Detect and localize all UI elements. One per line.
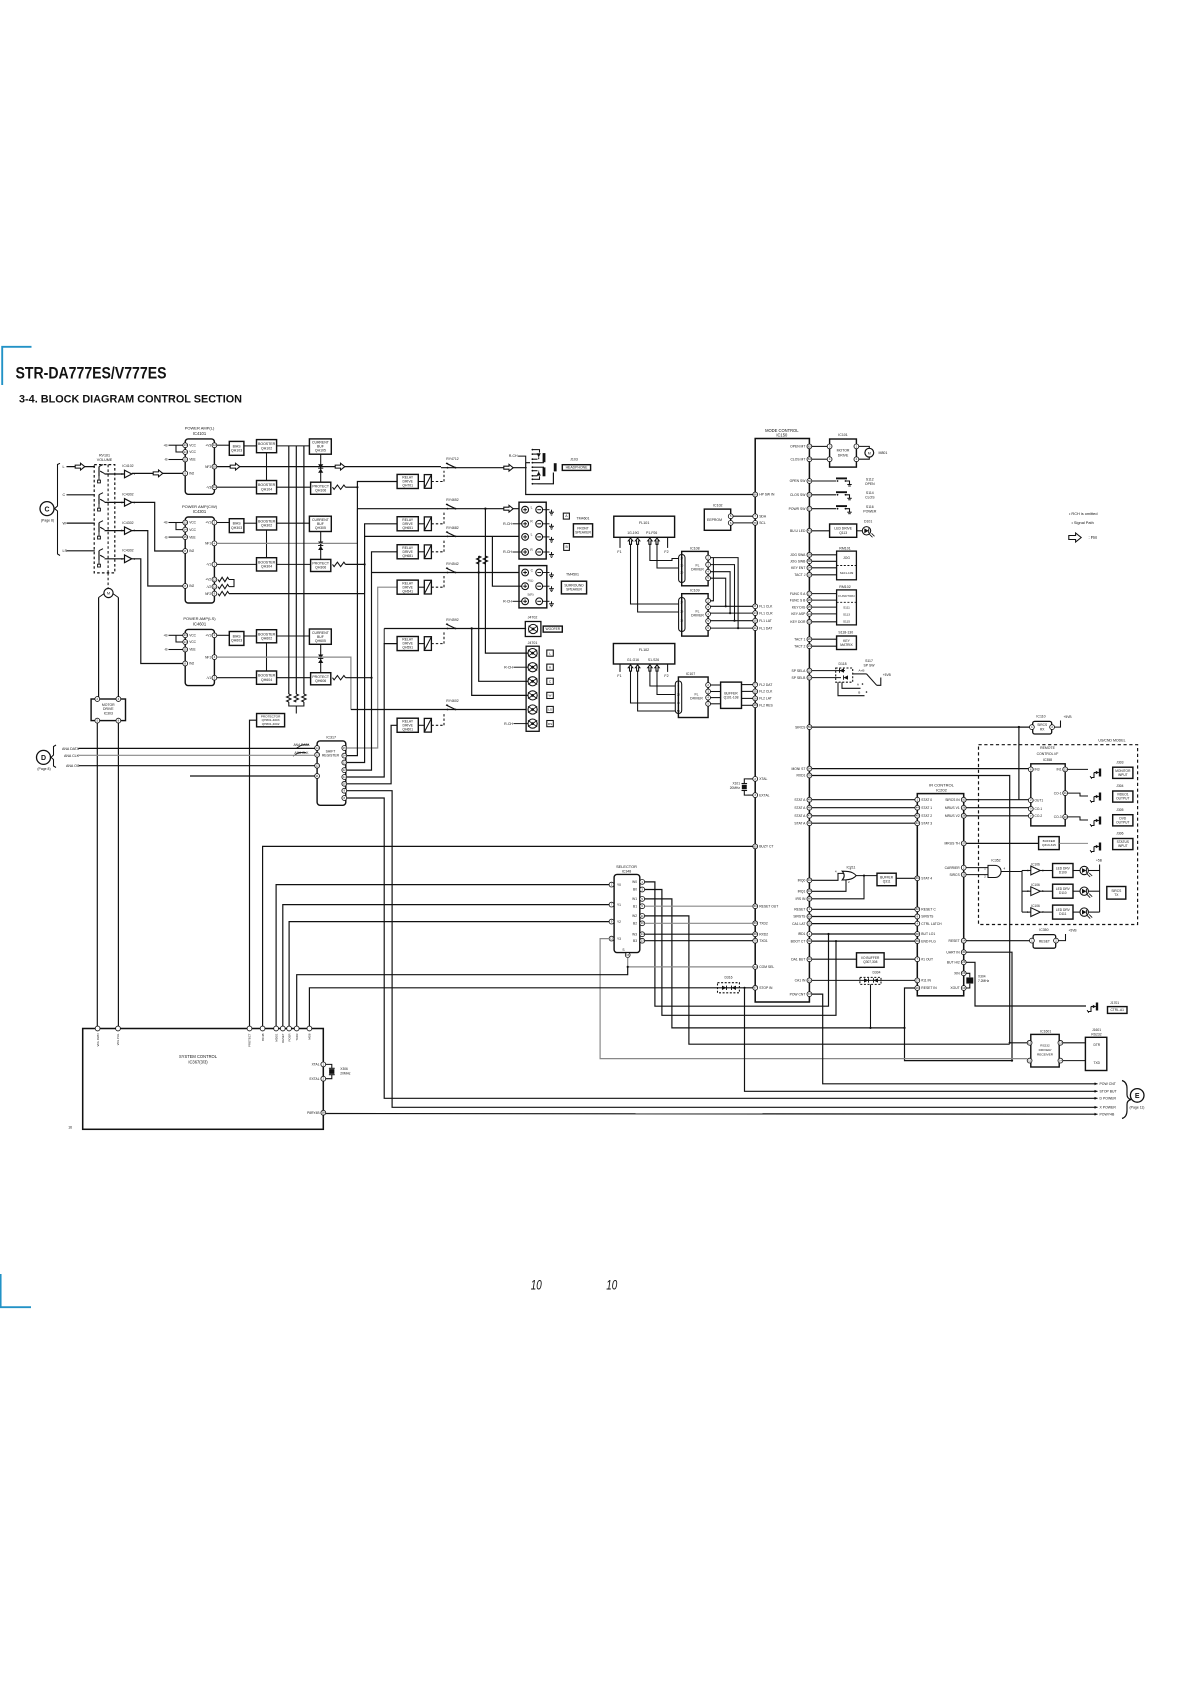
svg-text:SP SW: SP SW <box>863 663 875 667</box>
svg-text:62: 62 <box>808 444 812 448</box>
IC150 pin 77 FL2 DAT <box>753 682 758 687</box>
svg-text:13: 13 <box>184 520 188 524</box>
svg-text:TM4601: TM4601 <box>576 517 589 521</box>
svg-text:CO-1: CO-1 <box>1035 807 1043 811</box>
FL102 drive arrow <box>628 665 632 671</box>
svg-text:26: 26 <box>808 598 812 602</box>
svg-text:27: 27 <box>808 592 812 596</box>
svg-text:CTRL-A1: CTRL-A1 <box>1110 1008 1124 1012</box>
dashed link RY4652 <box>431 523 444 525</box>
headphone jack bottom loop <box>538 473 554 484</box>
IC150 pin 25 KEY DIG <box>807 605 812 610</box>
I/O buffer Q307,308 <box>857 953 885 968</box>
wire to RM102 <box>812 621 837 623</box>
IC317 pin 13 <box>315 752 320 757</box>
IC150 pin 48 STAT A <box>807 805 812 810</box>
wire IC317 output 3 to relay row <box>347 524 397 763</box>
svg-text:W: W <box>549 694 552 698</box>
IC202 pin 7 #1 OUT <box>915 957 920 962</box>
svg-text:Q311: Q311 <box>883 880 891 884</box>
svg-text:DRIVE: DRIVE <box>838 453 849 457</box>
IC150 pin 27 FUNC S A <box>807 591 812 596</box>
svg-text:REMOTE: REMOTE <box>1040 746 1055 750</box>
svg-text:23: 23 <box>962 960 966 964</box>
svg-text:D111: D111 <box>1059 912 1066 916</box>
IC202 pin 28 MRUS V2 <box>961 813 966 818</box>
control wires RESET C..END FLG <box>812 908 915 910</box>
svg-text:S111: S111 <box>843 606 850 610</box>
wire protector to system control PROTECT <box>250 720 257 1028</box>
potentiometer element 2 of RV101 <box>98 495 100 505</box>
boxed label A <box>563 513 569 519</box>
svg-text:12: 12 <box>316 764 320 768</box>
wire IC317 output 7 to bottom bus <box>347 791 1096 1108</box>
svg-text:FUNCTION: FUNCTION <box>838 594 854 598</box>
svg-text:FUNC S A: FUNC S A <box>790 592 806 596</box>
svg-text:16: 16 <box>680 619 683 623</box>
wire S to TXD3 <box>297 967 628 1029</box>
wire W3 to RXD2 <box>645 933 753 935</box>
svg-text:QH302: QH302 <box>261 524 272 528</box>
IC348 pin 9 Y2 <box>609 919 614 924</box>
svg-text:46: 46 <box>916 876 920 880</box>
svg-text:S116: S116 <box>866 505 874 509</box>
svg-text:J304: J304 <box>1116 784 1123 788</box>
IR control IC202 body <box>917 794 963 996</box>
IC202 pin 23 BUT HI2 <box>961 960 966 965</box>
dashed link RY4712 <box>431 481 444 483</box>
IC367 top pin VOL DWN <box>95 1026 100 1031</box>
wire bias to booster QH102 <box>244 445 257 447</box>
svg-text:BC4B: BC4B <box>261 1033 265 1040</box>
wire to RM101 <box>812 574 837 576</box>
IC348 pin 5 W1 <box>640 897 645 902</box>
relay drive QH681 <box>397 545 418 559</box>
wire W1 routing <box>645 899 905 1028</box>
svg-text:J306: J306 <box>1116 832 1123 836</box>
svg-text:FL2 RES: FL2 RES <box>759 704 773 708</box>
svg-text:QH305: QH305 <box>315 526 326 530</box>
svg-text:48: 48 <box>808 806 812 810</box>
IC348 pin 10 B2 <box>640 921 645 926</box>
svg-text:W2: W2 <box>632 914 637 918</box>
svg-text:FL2 CLK: FL2 CLK <box>759 690 773 694</box>
wire RESET IN routing <box>905 988 1013 1061</box>
svg-text:R-CH: R-CH <box>504 665 513 669</box>
svg-text:M: M <box>107 591 110 596</box>
svg-text:QH651: QH651 <box>402 526 413 530</box>
LED driver D109 <box>1053 864 1073 878</box>
svg-text:12: 12 <box>343 768 347 772</box>
relay coil QH541 <box>424 580 431 594</box>
wire relay drive QH651 input <box>418 523 424 525</box>
svg-text:QH681: QH681 <box>402 554 413 558</box>
vertical supply bus 3 <box>303 446 305 694</box>
jack J4701 W <box>528 691 537 700</box>
svg-text:IC202: IC202 <box>936 787 947 792</box>
svg-text:QH801,4002: QH801,4002 <box>262 722 280 726</box>
svg-text:R-CH: R-CH <box>503 600 512 604</box>
IC108 output pin 1 <box>706 555 711 560</box>
svg-text:25: 25 <box>808 605 812 609</box>
svg-text:10: 10 <box>213 465 217 469</box>
bias QH303 <box>229 519 244 533</box>
svg-text:QH306: QH306 <box>315 566 326 570</box>
svg-text:IC367(3/3): IC367(3/3) <box>188 1060 208 1065</box>
svg-text:IN2: IN2 <box>189 662 194 666</box>
svg-text:80: 80 <box>808 897 812 901</box>
protect QH106 <box>311 482 331 494</box>
speaker line front L through RY4712 <box>441 467 527 469</box>
svg-text:F2: F2 <box>664 550 668 554</box>
svg-text:J4702: J4702 <box>528 616 538 620</box>
svg-text:7.2MHz: 7.2MHz <box>978 979 990 983</box>
booster QH602 <box>257 630 277 643</box>
IC348 pin 6 B1 <box>640 904 645 909</box>
svg-text:PROTECT: PROTECT <box>248 1033 252 1047</box>
svg-text:ANA CLK: ANA CLK <box>64 754 80 758</box>
svg-text:DRIVER: DRIVER <box>691 614 704 618</box>
LED driver D110 <box>1053 884 1073 898</box>
IC202 pin 42 RESET C <box>915 907 920 912</box>
svg-text:POER: POER <box>287 1034 291 1042</box>
potentiometer element 1 of RV101 <box>98 467 100 477</box>
svg-text:R(L): R(L) <box>528 578 534 582</box>
svg-text:55: 55 <box>808 493 812 497</box>
input brace <box>55 463 61 555</box>
IC150 pin 7 SDA <box>753 514 758 519</box>
IC202 pin 14 RESET <box>961 938 966 943</box>
IC317 output pin 7 <box>342 788 347 793</box>
wire boosters vertical link IC4601 <box>266 643 268 671</box>
IC150 pin 10 FL1 LAT <box>753 618 758 623</box>
IC150 pin 8 FL1 CLK <box>753 604 758 609</box>
svg-text:78: 78 <box>808 773 812 777</box>
wire MONI ST to IN3 <box>812 768 1029 770</box>
potentiometer element 4 of RV101 <box>98 551 100 561</box>
svg-text:QH603: QH603 <box>231 639 242 643</box>
svg-text:KEY ASP: KEY ASP <box>791 612 806 616</box>
wire ANA OC <box>79 765 315 767</box>
wire gate to buffer <box>856 875 877 877</box>
svg-text:J303: J303 <box>1116 760 1123 764</box>
svg-text:VOL DWN: VOL DWN <box>96 1034 100 1047</box>
booster QH604 <box>257 671 277 684</box>
wire P8RY4B bottom bus <box>326 1113 1096 1116</box>
svg-text:COM SEL: COM SEL <box>759 965 774 969</box>
FL display FL101 <box>614 516 675 537</box>
HEADPHONE box <box>562 465 590 471</box>
booster QH304 <box>257 558 277 571</box>
terminal surround C <box>522 569 529 576</box>
svg-text:39: 39 <box>916 939 920 943</box>
wire FL101 P arrows to IC108 <box>650 544 679 561</box>
svg-text:11: 11 <box>1028 1059 1031 1063</box>
svg-text:STAT 1: STAT 1 <box>921 806 932 810</box>
svg-text:IC4302: IC4302 <box>122 493 133 497</box>
current limiter diodes IC4601 <box>320 644 322 672</box>
IC4101 pin 12 +V3 <box>212 443 217 448</box>
wire buffer to #1 OUT <box>884 958 915 960</box>
IC150 pin 15 FL2 CLK <box>753 689 758 694</box>
IC367 top pin RESET <box>280 1026 285 1031</box>
svg-text:13: 13 <box>754 611 758 615</box>
IC202 pin 43 STAT 3 <box>915 821 920 826</box>
relay switch RY4712 <box>447 467 449 469</box>
IC202 pin 15 XIN <box>961 971 966 976</box>
svg-text:IC352: IC352 <box>991 859 1000 863</box>
svg-text:IC4301: IC4301 <box>193 509 207 514</box>
wire SIRCS to gate <box>966 874 988 876</box>
IC202 pin 4 CTRL LATCH <box>915 921 920 926</box>
protect QH606 output resistor <box>333 676 346 680</box>
wire booster QH102 to current buf <box>277 445 310 447</box>
tact switch S112 OPEN <box>812 480 836 482</box>
IC150 pin 1 RESET <box>807 907 812 912</box>
svg-text:C: C <box>44 506 49 513</box>
svg-text:DRIVER: DRIVER <box>690 697 703 701</box>
IC348 pin 1 W0 <box>640 880 645 885</box>
svg-text:(Page 8): (Page 8) <box>37 767 50 771</box>
wire boosters vertical link IC4301 <box>266 530 268 558</box>
svg-text:TACT J: TACT J <box>794 573 805 577</box>
svg-text:S118-130: S118-130 <box>838 630 853 634</box>
svg-text:BUZY CT: BUZY CT <box>759 845 773 849</box>
svg-text:SIRCS: SIRCS <box>949 873 960 877</box>
svg-text:18: 18 <box>754 703 758 707</box>
relay coil QH591 <box>424 637 431 651</box>
svg-text:P8RY4B: P8RY4B <box>307 1111 319 1115</box>
wire surround line to J4701 C <box>479 573 528 682</box>
resistor on NF2 <box>218 591 229 595</box>
wire B2 to TXD2 <box>645 922 753 924</box>
IC150 pin 70 TXD1 <box>753 938 758 943</box>
IC150 pin 13 FL1 CLR <box>753 611 758 616</box>
IC150 pin 67 STOP IN <box>753 985 758 990</box>
IC150 pin 39 JOG SWA <box>807 552 812 557</box>
svg-text:10: 10 <box>641 921 645 925</box>
IC4601 pin 14 VCC <box>183 640 188 645</box>
svg-text:11: 11 <box>641 914 644 918</box>
wire STOP IN line <box>309 988 752 1029</box>
jack to J304 <box>1068 793 1088 796</box>
FL101 drive arrow <box>648 538 652 544</box>
svg-text:14: 14 <box>316 746 320 750</box>
wire S select / COM SEL (gray) <box>628 957 753 967</box>
IC4301 pin 15 VEE <box>183 535 188 540</box>
wire protect QH106 to relay bus <box>346 486 358 488</box>
svg-text:76: 76 <box>754 521 758 525</box>
svg-text:28: 28 <box>962 814 966 818</box>
svg-text:A+B: A+B <box>859 669 865 673</box>
svg-text:VOL PUL: VOL PUL <box>116 1033 120 1045</box>
potentiometer element 3 of RV101 <box>98 523 100 533</box>
svg-text:58: 58 <box>322 1111 326 1115</box>
svg-text:10: 10 <box>962 798 966 802</box>
svg-text:IN2: IN2 <box>189 584 194 588</box>
svg-text:M: M <box>868 451 871 455</box>
boxed label B <box>564 544 570 551</box>
svg-text:63: 63 <box>808 914 812 918</box>
svg-text:FL2 DAT: FL2 DAT <box>759 683 772 687</box>
wire IC317 output 2 to relay row <box>347 482 397 756</box>
svg-text:FL102: FL102 <box>639 648 649 652</box>
svg-text:22: 22 <box>808 669 812 673</box>
volume motor M <box>104 588 113 597</box>
svg-text:VCC: VCC <box>189 443 196 447</box>
relay coil QH681 <box>424 545 431 559</box>
svg-text:IC317: IC317 <box>326 735 336 739</box>
svg-text:RESET: RESET <box>281 1033 285 1043</box>
IC348 pin 3 B0 <box>640 887 645 892</box>
svg-text:16: 16 <box>68 1125 72 1129</box>
FL101 drive arrow <box>628 538 632 544</box>
svg-text:IC348: IC348 <box>622 870 631 874</box>
IC202 pin 39 END FLG <box>915 939 920 944</box>
wire IC1601 to J1601 TXD <box>1063 1060 1086 1062</box>
svg-text:13: 13 <box>1064 767 1068 771</box>
svg-text:F1: F1 <box>617 674 621 678</box>
svg-text:Q313-315: Q313-315 <box>1042 843 1056 847</box>
svg-text:RXD1: RXD1 <box>796 774 805 778</box>
svg-text:14: 14 <box>184 450 188 454</box>
svg-text:MATRIX: MATRIX <box>840 643 853 647</box>
brace to connector E <box>1122 1081 1131 1119</box>
svg-text:11: 11 <box>1064 791 1067 795</box>
resistor on -V2 <box>218 584 229 588</box>
wire IC317 pin1 to relay QH541 (gray) <box>347 587 397 748</box>
wire FL101 G arrows to IC109 <box>631 544 679 604</box>
surround speaker terminal TM4501 <box>519 566 547 608</box>
svg-text:SDA: SDA <box>759 514 767 518</box>
signal arrow on L input <box>75 463 85 470</box>
svg-text:Y3: Y3 <box>617 937 621 941</box>
svg-text:12: 12 <box>1028 1041 1032 1045</box>
IC108 output pin 2 <box>706 562 711 567</box>
relay drive QH541 <box>397 580 418 594</box>
svg-text:REGISTER: REGISTER <box>322 754 340 758</box>
FL101 drive arrow <box>635 538 639 544</box>
front speaker terminal TM4601 <box>519 502 546 559</box>
svg-text:POWY4B: POWY4B <box>1100 1113 1115 1117</box>
wire Y1 to system control <box>283 905 609 1029</box>
IC4601 pin 13 VCC <box>183 633 188 638</box>
wire +V2/-V2 join <box>229 580 234 587</box>
CTRL-A1 box <box>1108 1007 1128 1014</box>
IC348 pin 7 Y1 <box>609 902 614 907</box>
IC4301 pin 14 VCC <box>183 527 188 532</box>
wire IRQ1 to gate <box>812 880 846 892</box>
svg-text:IC109: IC109 <box>690 589 699 593</box>
signal arrow buffer1 out <box>153 470 163 477</box>
svg-text:R-CH: R-CH <box>503 550 512 554</box>
jack J4701 L <box>528 649 537 658</box>
svg-text:RESET: RESET <box>1039 940 1050 944</box>
IC150 pin 10 IRQ0 <box>807 878 812 883</box>
FL1 bus wires IC109 to IC150 <box>711 605 753 607</box>
bus resistor 3 <box>302 694 306 702</box>
relay switch RY4542 <box>447 572 449 574</box>
svg-text:23: 23 <box>677 693 680 697</box>
svg-text:14: 14 <box>343 754 347 758</box>
legend FM arrow <box>1069 533 1081 542</box>
wire DA1 BUT to buffer <box>812 958 857 960</box>
IC150 pin 16 IRQ1 <box>807 889 812 894</box>
svg-text:J4701: J4701 <box>528 641 538 645</box>
svg-text:19: 19 <box>808 676 812 680</box>
IC317 pin 11 <box>315 774 320 779</box>
svg-text:13: 13 <box>184 443 188 447</box>
svg-text:MOTOR: MOTOR <box>837 449 850 453</box>
wire motor drive to system control VOL PUL <box>117 723 119 1029</box>
IC348 pin 11 W2 <box>640 914 645 919</box>
svg-text:SIRSTS: SIRSTS <box>921 915 934 919</box>
MONITOR INPUT box <box>1113 767 1133 778</box>
wire IC317 output 8 to bottom bus <box>347 798 1096 1098</box>
signal arrow front A <box>504 505 513 512</box>
FL102 drive arrow <box>635 665 639 671</box>
wire IC4601 +V to bias <box>217 634 230 636</box>
IC4601 pin 4 NF1 <box>212 655 217 660</box>
svg-text:27: 27 <box>916 978 920 982</box>
IC4601 pin 2 +V1 <box>212 633 217 638</box>
svg-text:S112: S112 <box>866 477 874 481</box>
svg-text:17: 17 <box>680 557 683 561</box>
svg-text:JOG: JOG <box>843 556 850 560</box>
svg-text:CLOS: CLOS <box>865 496 875 500</box>
IC4301 pin 8 IN2 <box>183 584 188 589</box>
IC109 output pin 4 <box>706 619 711 624</box>
svg-text:+5VB: +5VB <box>1064 715 1072 719</box>
svg-text:61: 61 <box>808 978 812 982</box>
wire bias to booster QH602 <box>244 635 257 637</box>
svg-text:J1701: J1701 <box>1110 1001 1119 1005</box>
jack to J305 <box>1068 817 1088 820</box>
svg-text:CA1 LAT: CA1 LAT <box>792 922 805 926</box>
svg-text:(Page 8): (Page 8) <box>41 519 54 523</box>
svg-text:MRUS V2: MRUS V2 <box>945 814 960 818</box>
current buf QH305 <box>309 516 331 531</box>
jack J4701 LS <box>528 705 537 714</box>
wire TACT 1 <box>812 638 837 640</box>
svg-text:16: 16 <box>962 986 966 990</box>
svg-text:IN2: IN2 <box>189 549 194 553</box>
wire ANA DATA <box>79 747 315 749</box>
svg-text:-B: -B <box>164 648 167 652</box>
svg-text:RV101: RV101 <box>99 453 110 457</box>
wires IC107 to buffer <box>711 684 721 686</box>
svg-text:POWR SW: POWR SW <box>789 507 807 511</box>
SURROUND SPEAKER box <box>561 581 586 594</box>
IC367 top pin MDO1 <box>274 1026 279 1031</box>
STATUS INPUT box <box>1113 839 1133 850</box>
svg-text:P1-P26: P1-P26 <box>646 531 657 535</box>
bias QH103 <box>229 441 244 455</box>
svg-text:FL2 LAT: FL2 LAT <box>759 697 772 701</box>
svg-text:F1: F1 <box>617 550 621 554</box>
wire boosters vertical link IC4101 <box>266 453 268 481</box>
svg-text:BUT HI2: BUT HI2 <box>947 961 960 965</box>
wire IC1601 to J1601 DTR <box>1063 1042 1086 1044</box>
svg-text:+5VB: +5VB <box>883 673 891 677</box>
wire IC317 output 5 to relay row <box>347 644 397 777</box>
svg-text:L: L <box>531 533 533 537</box>
bus join to protector <box>289 702 304 706</box>
svg-text:IC107: IC107 <box>686 672 695 676</box>
IC150 pin 23 KEY DOR <box>807 619 812 624</box>
dashed link RY4602 <box>431 724 444 726</box>
volume dashed link to motor <box>107 573 109 589</box>
